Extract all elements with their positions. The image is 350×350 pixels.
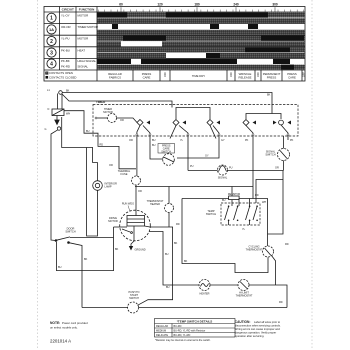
svg-text:GY: GY xyxy=(205,155,209,158)
temp switch terminal dots xyxy=(228,205,230,207)
wire from power cord to timer feeder xyxy=(62,94,172,108)
svg-text:300: 300 xyxy=(272,2,278,6)
svg-text:REGULAR: REGULAR xyxy=(156,325,168,328)
label thermostat heater xyxy=(147,200,164,206)
label cycling thermostat xyxy=(246,246,263,252)
svg-text:SWITCH: SWITCH xyxy=(161,150,171,153)
wire drive motor to push to start switch xyxy=(138,227,173,305)
temp switch contact blade 1 xyxy=(225,207,229,221)
ground G arrow xyxy=(55,120,59,125)
svg-text:MOTOR: MOTOR xyxy=(78,37,89,41)
svg-text:PU: PU xyxy=(229,167,233,170)
svg-text:GY: GY xyxy=(221,139,225,142)
wire drive motor left to door switch loop xyxy=(114,226,121,228)
svg-text:BU-RD, YL-RD with Resistor: BU-RD, YL-RD with Resistor xyxy=(174,330,206,333)
wire bottom bus right xyxy=(139,307,288,309)
svg-text:BK: BK xyxy=(115,248,119,251)
lamp inner circle xyxy=(95,183,99,187)
wire temp switch lower stub 1 xyxy=(228,221,230,226)
wire signal buzzer right to cycling thermostat xyxy=(228,171,284,235)
svg-text:SWITCH: SWITCH xyxy=(206,212,216,216)
wire temp switch common riser xyxy=(256,180,283,204)
svg-text:CONTACTS CLOSED: CONTACTS CLOSED xyxy=(49,75,76,79)
wire temp switch feed 2 xyxy=(238,199,240,207)
svg-text:OFF: OFF xyxy=(302,71,306,77)
svg-text:RD: RD xyxy=(279,301,283,304)
wire door switch upper contact xyxy=(70,237,114,239)
push to start switch S5 xyxy=(128,302,139,313)
timer cam contact 2 xyxy=(173,120,186,126)
svg-text:SWITCH: SWITCH xyxy=(265,153,275,157)
svg-text:G: G xyxy=(45,128,47,131)
signal buzzer xyxy=(218,165,228,175)
label hi-limit thermostat xyxy=(236,292,253,298)
svg-text:RD: RD xyxy=(285,243,289,246)
wire cam 5 stub xyxy=(281,125,288,140)
svg-text:on select models only.: on select models only. xyxy=(50,326,78,330)
svg-text:FUNCTION: FUNCTION xyxy=(79,8,95,12)
timer motor terminal xyxy=(95,117,97,119)
signal switch S2 xyxy=(278,149,290,161)
svg-text:disconnection when servicing c: disconnection when servicing controls. xyxy=(235,323,281,327)
timer terminal T4 xyxy=(218,134,220,136)
svg-text:BU: BU xyxy=(86,130,90,133)
timer cam contact 1 xyxy=(137,120,150,126)
svg-text:OFF: OFF xyxy=(163,71,167,77)
svg-text:OFF: OFF xyxy=(256,71,260,77)
wire heater to hi-limit xyxy=(210,284,238,286)
temp switch details table xyxy=(155,319,236,338)
wire to signal buzzer left xyxy=(188,170,218,172)
svg-text:240: 240 xyxy=(233,2,239,6)
svg-text:PK-BK: PK-BK xyxy=(61,59,70,63)
svg-text:CARE: CARE xyxy=(143,75,151,79)
svg-text:PRESS: PRESS xyxy=(267,75,277,79)
svg-text:NOTE:: NOTE: xyxy=(50,321,60,325)
svg-text:CIRCUIT: CIRCUIT xyxy=(62,8,74,12)
wire temp circuit loop top left xyxy=(182,198,229,200)
ground G xyxy=(56,116,58,121)
temp switch contact blade 2 xyxy=(234,207,238,221)
heater E1 xyxy=(199,280,210,291)
wire signal switch upper lead xyxy=(283,136,285,149)
wire from N terminal down to door switch xyxy=(51,130,58,241)
wire drive motor to heater xyxy=(149,232,199,286)
svg-text:BU-RD, YL-RD: BU-RD, YL-RD xyxy=(174,334,191,337)
svg-text:HIGH SIGNAL: HIGH SIGNAL xyxy=(78,59,97,63)
temp switch contact blade 4 xyxy=(253,207,257,221)
svg-text:DELICATE: DELICATE xyxy=(156,334,168,337)
temp switch box xyxy=(221,203,260,225)
terminal block N xyxy=(52,109,64,116)
terminal block diagonal xyxy=(52,109,64,116)
svg-text:OR: OR xyxy=(120,119,124,122)
wire cam 1 to thermal fuse xyxy=(137,126,140,177)
svg-text:BU: BU xyxy=(222,199,226,202)
svg-text:BU: BU xyxy=(58,266,62,269)
timer cam contact 3 xyxy=(207,120,220,126)
wire resistor feed xyxy=(231,187,233,197)
drive motor M2 xyxy=(120,210,151,241)
svg-text:BU: BU xyxy=(152,144,156,147)
wire labels xyxy=(45,89,294,304)
svg-text:dangerous operation. Verify pr: dangerous operation. Verify proper xyxy=(235,330,276,334)
svg-text:YL-PU: YL-PU xyxy=(61,37,70,41)
svg-text:THERMOSTAT: THERMOSTAT xyxy=(246,249,263,252)
svg-text:Power cord provided: Power cord provided xyxy=(62,321,88,325)
svg-text:RD: RD xyxy=(100,144,104,147)
wire timer motor right lead to cam 1 xyxy=(117,118,138,123)
svg-text:OR: OR xyxy=(275,167,279,170)
svg-text:WH: WH xyxy=(262,201,266,204)
wire temp circuit loop left and bottom xyxy=(182,199,268,273)
label timer motor xyxy=(103,107,113,114)
label press care switch xyxy=(158,144,175,154)
wire WH staircase from terminal block to thermal fuse node xyxy=(64,111,136,169)
svg-text:BU: BU xyxy=(152,139,156,142)
svg-text:SWITCH: SWITCH xyxy=(65,230,75,234)
svg-text:TIMER: TIMER xyxy=(96,100,106,104)
wire cam 3 fixed contact xyxy=(210,126,216,139)
wire cam 2 blade to signal buzzer xyxy=(179,126,188,171)
power cord second conductor xyxy=(61,94,63,109)
label push to start switch xyxy=(128,291,139,300)
svg-text:*Resistor may be internal or e: *Resistor may be internal or external to… xyxy=(155,339,211,342)
label signal switch xyxy=(265,150,275,157)
svg-text:*TEMP SWITCH DETAILS: *TEMP SWITCH DETAILS xyxy=(177,320,213,324)
svg-text:GROUND: GROUND xyxy=(135,249,146,252)
svg-text:BU: BU xyxy=(166,286,170,289)
svg-text:BK: BK xyxy=(267,94,271,97)
wire signal switch lower lead xyxy=(283,161,285,171)
svg-text:SWITCH: SWITCH xyxy=(129,297,139,300)
svg-text:TIMER MOTOR: TIMER MOTOR xyxy=(78,25,99,29)
wire hi-limit to bottom bus xyxy=(249,285,287,308)
svg-text:THERMOSTAT: THERMOSTAT xyxy=(236,295,253,298)
svg-text:HEATER: HEATER xyxy=(150,203,160,206)
svg-text:SIGNAL: SIGNAL xyxy=(218,176,228,180)
wire timer motor left lead xyxy=(96,117,108,119)
cycling thermostat S3 xyxy=(263,246,274,257)
svg-text:4: 4 xyxy=(50,61,53,67)
label thermal fuse xyxy=(118,169,131,176)
power cord xyxy=(57,94,59,110)
svg-text:RUN WDG: RUN WDG xyxy=(122,203,134,206)
svg-text:LAMP: LAMP xyxy=(105,185,112,189)
svg-text:BK: BK xyxy=(174,242,178,245)
wire cam 4 to temp switch xyxy=(246,126,253,199)
wire thermostat heater lower lead xyxy=(168,213,170,228)
wire temp circuit loop right to cycling thermostat xyxy=(239,199,267,247)
wire timer feeder to cams 2 and 3 xyxy=(176,108,210,120)
wire bottom bus left xyxy=(82,307,128,309)
timer motor M1 xyxy=(108,114,117,123)
svg-text:RD: RD xyxy=(176,223,180,226)
svg-text:1: 1 xyxy=(50,16,53,22)
svg-text:TIME DRY: TIME DRY xyxy=(192,74,205,78)
svg-text:HEATER: HEATER xyxy=(200,293,210,296)
svg-text:WH: WH xyxy=(66,113,70,116)
wire cycling thermostat to heater bus xyxy=(272,256,276,286)
hi-limit thermostat S6 xyxy=(238,280,249,291)
wire BK from L1 to timer xyxy=(62,93,272,114)
svg-text:OFF: OFF xyxy=(229,71,233,77)
thermal fuse F1 xyxy=(132,176,141,185)
wire cam 3 blade to press care switch xyxy=(177,126,219,159)
label drive motor xyxy=(108,216,118,223)
timer terminal T3 xyxy=(187,134,189,136)
svg-text:PU: PU xyxy=(190,165,194,168)
svg-text:2: 2 xyxy=(50,39,53,45)
svg-text:MEDIUM: MEDIUM xyxy=(156,330,166,333)
wire temp switch feed 1 xyxy=(231,200,233,206)
svg-text:RELEASE: RELEASE xyxy=(239,75,252,79)
door switch S4 xyxy=(55,237,70,244)
svg-text:FABRICS: FABRICS xyxy=(109,75,121,79)
svg-text:120: 120 xyxy=(157,2,163,6)
svg-text:PK: PK xyxy=(290,139,294,142)
label interior lamp xyxy=(105,182,118,189)
svg-text:1A: 1A xyxy=(49,27,54,32)
svg-text:OR-OR: OR-OR xyxy=(61,25,71,29)
thermostat heater R1 xyxy=(165,204,174,213)
label door switch xyxy=(65,227,75,234)
svg-text:OR: OR xyxy=(138,190,142,193)
ground at drive motor xyxy=(129,241,134,251)
temp switch contact blade 3 xyxy=(246,207,250,221)
svg-text:CAUTION:: CAUTION: xyxy=(235,320,251,324)
wire door switch to bottom bus xyxy=(70,243,83,308)
svg-text:HEAT: HEAT xyxy=(78,48,86,52)
svg-text:PK-BU: PK-BU xyxy=(61,48,70,52)
svg-text:RESISTOR: RESISTOR xyxy=(228,193,240,196)
svg-text:PK: PK xyxy=(245,139,249,142)
wire OR from thermal fuse node to temp switch resistor xyxy=(135,186,253,188)
timer terminal T2 xyxy=(149,134,151,136)
resistor R2 xyxy=(229,196,240,200)
svg-text:OR: OR xyxy=(129,139,133,142)
timer cam contact 4 xyxy=(243,120,256,126)
wire temp switch lower stub 2 xyxy=(249,221,251,226)
svg-text:N: N xyxy=(48,108,50,111)
svg-text:MOTOR: MOTOR xyxy=(103,110,113,114)
timer terminal T1 xyxy=(136,134,138,136)
wire thermostat heater upper lead xyxy=(168,187,170,204)
wire temp switch feed 3 xyxy=(249,199,251,207)
svg-text:Wiring errors can cause improp: Wiring errors can cause improper and xyxy=(235,327,280,331)
node N lower terminal xyxy=(57,127,60,130)
timer cam contact 5 xyxy=(273,120,291,125)
lamp G1 interior lamp xyxy=(93,181,103,191)
svg-text:60: 60 xyxy=(119,2,123,6)
svg-text:180: 180 xyxy=(194,2,200,6)
svg-text:BK: BK xyxy=(184,260,188,263)
svg-text:PK-RD: PK-RD xyxy=(61,65,70,69)
wire cam 1 blade to press care switch xyxy=(143,126,163,160)
svg-text:3: 3 xyxy=(50,50,53,56)
press care switch S1 xyxy=(163,154,175,166)
timer box xyxy=(93,105,298,137)
timer terminal T6 xyxy=(287,134,289,136)
svg-text:OR: OR xyxy=(109,164,113,167)
svg-text:2201014 A: 2201014 A xyxy=(50,339,71,344)
node L1 xyxy=(59,91,63,95)
wire cam 2 fixed contact xyxy=(170,126,176,139)
svg-text:YL-OY: YL-OY xyxy=(61,14,70,18)
svg-text:operation after servicing.: operation after servicing. xyxy=(235,334,265,338)
wire thermal fuse to drive motor xyxy=(135,185,137,216)
timer terminal T5 xyxy=(252,134,254,136)
svg-text:MOTOR: MOTOR xyxy=(78,14,89,18)
svg-text:CARE: CARE xyxy=(288,75,296,79)
svg-text:FUSE: FUSE xyxy=(121,172,128,176)
svg-text:RD: RD xyxy=(255,194,259,197)
wire door switch loop xyxy=(57,227,114,271)
wire timer feeder to cams 4 and 5 xyxy=(246,114,281,120)
svg-text:MOTOR: MOTOR xyxy=(108,219,118,223)
svg-text:BU: BU xyxy=(165,253,169,256)
svg-text:Label all wires prior to: Label all wires prior to xyxy=(254,320,281,324)
wire interior lamp return xyxy=(87,148,98,237)
svg-text:BK: BK xyxy=(84,258,88,261)
label temp switch xyxy=(206,209,216,216)
svg-text:BU-RD: BU-RD xyxy=(174,325,182,328)
svg-text:SIGNAL: SIGNAL xyxy=(78,65,89,69)
wire GY staircase to interior lamp xyxy=(62,117,98,181)
svg-text:BK: BK xyxy=(66,90,70,93)
